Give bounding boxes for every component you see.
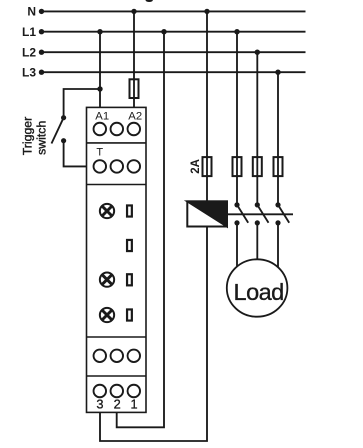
slot 1	[127, 205, 132, 216]
svg-text:N: N	[27, 5, 36, 19]
wire L2 to contact 2	[256, 52, 258, 205]
svg-text:L1: L1	[22, 25, 36, 39]
fuse F4	[274, 157, 283, 176]
lamp 3	[100, 308, 114, 322]
svg-text:switch: switch	[35, 121, 49, 155]
terminal T row right	[128, 160, 141, 173]
device divider 2	[87, 184, 147, 186]
contact K1-3	[275, 202, 280, 207]
trigger switch lower contact	[61, 138, 66, 143]
bus N	[42, 10, 306, 12]
node L2 terminal dot	[39, 50, 44, 55]
junction N x207	[204, 9, 209, 14]
terminal T row mid	[111, 160, 124, 173]
node L3 terminal dot	[39, 70, 44, 75]
junction L2 x257	[255, 50, 260, 55]
lamp 2	[100, 272, 114, 286]
wire trigger switch to T terminal	[64, 141, 87, 167]
mid terminal row right	[128, 350, 141, 363]
contact K1-1	[234, 202, 239, 207]
svg-text:A1: A1	[95, 110, 109, 122]
terminal 3	[94, 385, 107, 398]
terminal top row mid	[111, 123, 124, 136]
bus L2	[42, 51, 306, 53]
slot 3	[127, 274, 132, 285]
load M1 circle	[227, 259, 288, 316]
fuse F2	[233, 157, 242, 176]
contactor coil K1	[187, 201, 227, 226]
svg-text:1: 1	[130, 397, 137, 412]
device divider 3	[87, 336, 147, 338]
mid terminal row center	[111, 350, 124, 363]
contact K1-2	[255, 202, 260, 207]
svg-text:Load: Load	[234, 279, 284, 305]
trigger switch upper contact	[61, 115, 66, 120]
cropped glyph fragment top edge	[146, 0, 153, 2]
bus L3	[42, 71, 306, 73]
slot 4	[127, 309, 132, 320]
svg-text:2: 2	[114, 397, 121, 412]
wire coil to terminal 3	[100, 227, 207, 442]
junction N x134	[131, 9, 136, 14]
lamp 1	[100, 204, 114, 218]
svg-text:3: 3	[96, 397, 103, 412]
junction L1 x237	[234, 29, 239, 34]
wire L1 to A1	[99, 32, 101, 108]
svg-text:L3: L3	[22, 66, 36, 80]
terminal A2	[128, 123, 141, 136]
fuse F1 (A2 line)	[130, 79, 139, 98]
svg-text:2A: 2A	[190, 159, 202, 174]
junction L3 x278	[275, 70, 280, 75]
svg-text:T: T	[96, 147, 103, 159]
wire L1 right drop to terminal 2	[117, 32, 164, 428]
linkage line	[227, 213, 293, 215]
mid terminal row left	[94, 350, 107, 363]
slot 2	[127, 240, 132, 251]
svg-text:A2: A2	[128, 110, 142, 122]
node L1 terminal dot	[39, 29, 44, 34]
terminal 2	[111, 385, 124, 398]
trigger switch blade	[52, 118, 64, 144]
device U1 outline	[87, 107, 147, 412]
device divider 1	[87, 142, 147, 144]
junction L1 x164	[161, 29, 166, 34]
wire branch to trigger switch	[64, 89, 100, 118]
node N terminal dot	[39, 9, 44, 14]
device divider 4	[87, 375, 147, 377]
svg-text:Trigger: Trigger	[21, 117, 35, 156]
wire L1 to contact 1	[236, 32, 238, 205]
terminal T	[94, 160, 107, 173]
fuse 2A	[203, 157, 212, 176]
wire N to 2A fuse to coil	[206, 11, 208, 201]
bus L1	[42, 31, 306, 33]
fuse F3	[253, 157, 262, 176]
terminal 1	[128, 385, 141, 398]
wire L3 to contact 3	[277, 72, 279, 205]
svg-text:L2: L2	[22, 46, 36, 60]
junction L1 x100	[97, 29, 102, 34]
terminal A1	[94, 123, 107, 136]
junction trigger branch	[97, 86, 102, 91]
wire N to fuse to A2	[133, 11, 135, 107]
